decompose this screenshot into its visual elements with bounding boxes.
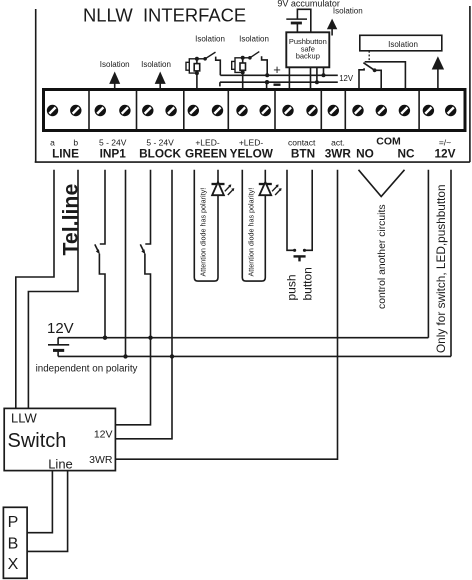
node GREEN iso bottom [195, 71, 199, 75]
terminal YELOW minus [260, 105, 271, 116]
label a [50, 137, 55, 147]
wire YELOW+ riser [242, 58, 244, 89]
wire INP1 left with switch [95, 170, 105, 338]
divider YELOW/BTN [274, 91, 276, 130]
node backup minus rail [315, 80, 319, 84]
wire LINE a down [16, 170, 54, 409]
wire 3WR down [116, 170, 338, 459]
label Isolation INP1 [100, 60, 130, 69]
jumper loop YELOW [235, 58, 243, 73]
divider BTN/3WR [320, 91, 322, 130]
svg-text:12V: 12V [47, 320, 74, 337]
terminal block [44, 90, 466, 131]
LED loop GREEN [194, 170, 218, 281]
label YELOW [230, 146, 274, 160]
LED YELOW arrows [272, 184, 282, 195]
terminal 12V 1 [423, 105, 434, 116]
arrow isolation BLOCK [155, 72, 166, 89]
svg-text:control another circuits: control another circuits [377, 204, 388, 309]
relay arm [363, 63, 376, 73]
svg-text:Tel.line: Tel.line [58, 184, 82, 256]
svg-text:GREEN: GREEN [185, 146, 227, 160]
LED GREEN [212, 182, 225, 195]
label only for switch [434, 184, 448, 353]
terminal NO [352, 105, 363, 116]
divider LINE/INP1 [88, 91, 90, 130]
wire LINE b down [28, 170, 78, 409]
divider INP1/BLOCK [136, 91, 138, 130]
label plus [273, 62, 281, 77]
svg-text:X: X [8, 556, 19, 573]
svg-text:P: P [8, 514, 19, 531]
wire GREEN switch contact to plus rail [216, 57, 221, 76]
svg-text:Only for switch, LED,pushbutto: Only for switch, LED,pushbutton [434, 184, 448, 353]
svg-text:Isolation: Isolation [239, 35, 269, 44]
svg-text:+: + [273, 62, 281, 77]
dashed link relay [368, 51, 370, 62]
label push button [284, 267, 314, 300]
svg-text:LINE: LINE [52, 146, 79, 160]
label b [73, 137, 78, 147]
PBX box [3, 507, 27, 578]
connector bracket YELOW [232, 61, 235, 69]
label independent on polarity [36, 363, 138, 374]
wire rail1 12V plus [58, 337, 428, 339]
terminal LINE b [70, 105, 81, 116]
wire switch line a to PBX [27, 471, 52, 533]
wire GREEN+ riser [196, 59, 198, 89]
label 12V rails [339, 74, 354, 83]
label +LED- YELOW [239, 137, 263, 147]
svg-text:independent on polarity: independent on polarity [36, 363, 138, 374]
terminal NC [399, 105, 410, 116]
wire relay NC [365, 62, 406, 89]
wire backup to plus rail [323, 68, 325, 76]
divider NC/12V [418, 91, 420, 130]
wire plus rail [220, 74, 337, 76]
pushbutton safe backup module [286, 32, 329, 67]
node YELOW contact plus rail [265, 73, 269, 77]
svg-text:BLOCK: BLOCK [139, 146, 181, 160]
node YELOW iso bottom [241, 70, 245, 74]
svg-text:backup: backup [296, 52, 320, 61]
label 9V accumulator [277, 0, 340, 9]
terminal COM [376, 105, 387, 116]
terminal LINE a [47, 105, 58, 116]
terminal BTN 1 [282, 105, 293, 116]
label COM [376, 136, 401, 148]
svg-text:BTN: BTN [291, 146, 315, 160]
svg-text:Isolation: Isolation [195, 35, 225, 44]
isolation box relay [360, 35, 442, 51]
label Isolation 3WR [333, 7, 363, 16]
label attention YELOW [247, 188, 256, 277]
wire frame bottom [35, 161, 470, 163]
svg-text:Isolation: Isolation [388, 40, 418, 49]
wire backup to BTN b [310, 68, 312, 89]
label BLOCK [139, 146, 181, 160]
LED YELOW [259, 182, 272, 195]
terminal INP1 2 [119, 105, 130, 116]
node BLOCK right rail2 [170, 354, 174, 358]
label =/~ [439, 137, 451, 147]
label 5-24V INP1 [99, 137, 127, 147]
wire 12V minus down [450, 170, 452, 357]
terminal BLOCK 2 [165, 105, 176, 116]
label BTN [291, 146, 315, 160]
svg-text:9V accumulator: 9V accumulator [277, 0, 340, 9]
svg-text:Isolation: Isolation [141, 60, 171, 69]
resistor GREEN isolation [194, 64, 200, 71]
terminal BLOCK 1 [142, 105, 153, 116]
terminal BTN 2 [306, 105, 317, 116]
label NC [397, 146, 415, 160]
svg-text:3WR: 3WR [325, 146, 352, 160]
wire switch line b to PBX [27, 471, 67, 552]
node backup plus rail [322, 73, 326, 77]
wire backup to minus rail [316, 68, 318, 83]
svg-text:button: button [300, 267, 314, 300]
wire minus rail [220, 81, 338, 83]
node BLOCK left rail1 [148, 336, 152, 340]
wire NO NC control V [359, 170, 405, 197]
LLW switch box [4, 408, 115, 471]
wire minus rail left stub [219, 82, 221, 86]
svg-text:Attention diode has polarity!: Attention diode has polarity! [247, 188, 256, 277]
label Isolation GREEN [195, 35, 225, 44]
terminal GREEN plus [188, 105, 199, 116]
arrow isolation INP1 [109, 72, 120, 89]
switch GREEN isolation [197, 52, 216, 61]
wire right border [469, 6, 471, 162]
resistor YELOW isolation [240, 63, 246, 70]
svg-text:B: B [8, 536, 19, 553]
label control another circuits [377, 204, 388, 309]
svg-text:INP1: INP1 [100, 146, 127, 160]
terminal YELOW plus [236, 105, 247, 116]
LED loop YELOW [242, 170, 265, 281]
svg-text:LLW: LLW [11, 410, 37, 425]
divider 3WR/NO [344, 91, 346, 130]
terminal 12V 2 [445, 105, 456, 116]
wire rail2 12V minus [58, 355, 451, 357]
label LINE [52, 146, 79, 160]
wire YELOW switch contact to plus rail [262, 56, 268, 75]
label Isolation BLOCK [141, 60, 171, 69]
label Isolation YELOW [239, 35, 269, 44]
wire 12V plus down [427, 170, 429, 338]
label contact [288, 137, 316, 147]
label NO [356, 146, 374, 160]
label INP1 [100, 146, 127, 160]
svg-text:12V: 12V [94, 428, 113, 440]
label act. [331, 137, 345, 147]
svg-text:NC: NC [397, 146, 415, 160]
terminal 3WR [328, 105, 339, 116]
svg-text:push: push [284, 274, 298, 300]
terminal GREEN minus [212, 105, 223, 116]
svg-text:NLLW INTERFACE: NLLW INTERFACE [83, 4, 246, 25]
node YELOW minus rail [265, 80, 269, 84]
wire BLOCK left with switch [116, 170, 151, 425]
battery 9V accumulator [286, 9, 311, 32]
label 12V battery [47, 320, 74, 337]
connector bracket GREEN [186, 62, 189, 70]
svg-text:Line: Line [48, 457, 73, 472]
arrow isolation 3WR [327, 19, 337, 36]
svg-text:Switch: Switch [8, 430, 67, 452]
jumper loop GREEN [189, 59, 197, 73]
divider GREEN/YELOW [227, 91, 229, 130]
svg-text:NO: NO [356, 146, 374, 160]
wire INP1 right [125, 170, 127, 357]
wire YELOW minus stub [266, 82, 268, 88]
label 5-24V BLOCK [146, 137, 174, 147]
svg-text:Attention diode has polarity!: Attention diode has polarity! [199, 188, 208, 277]
wire backup to BTN a [288, 68, 290, 89]
svg-text:Isolation: Isolation [333, 7, 363, 16]
label attention GREEN [199, 188, 208, 277]
svg-text:Isolation: Isolation [100, 60, 130, 69]
label GREEN [185, 146, 227, 160]
node YELOW iso top [241, 56, 245, 60]
label minus [274, 83, 281, 85]
svg-text:3WR: 3WR [89, 454, 113, 466]
wire BLOCK right [116, 170, 172, 439]
node INP1 right rail2 [123, 354, 127, 358]
wire relay COM [375, 70, 382, 88]
title NLLW INTERFACE [83, 4, 246, 25]
svg-text:YELOW: YELOW [230, 146, 274, 160]
node GREEN iso top [195, 57, 199, 61]
divider BLOCK/GREEN [183, 91, 185, 130]
svg-text:12V: 12V [435, 146, 456, 160]
wire relay NO [359, 68, 364, 88]
label +LED- GREEN [195, 137, 219, 147]
label 12V terminal [435, 146, 456, 160]
label 3WR [325, 146, 352, 160]
label Tel.line [58, 184, 82, 256]
svg-text:12V: 12V [339, 74, 354, 83]
LED GREEN arrows [225, 184, 235, 195]
battery 12V [48, 338, 69, 357]
terminal INP1 1 [95, 105, 106, 116]
node INP1 left rail1 [103, 336, 107, 340]
arrow isolation 12V [432, 56, 444, 88]
push button actuator [294, 256, 306, 261]
wire left border [35, 9, 37, 162]
push button contacts [287, 170, 312, 252]
switch YELOW isolation [243, 52, 260, 60]
